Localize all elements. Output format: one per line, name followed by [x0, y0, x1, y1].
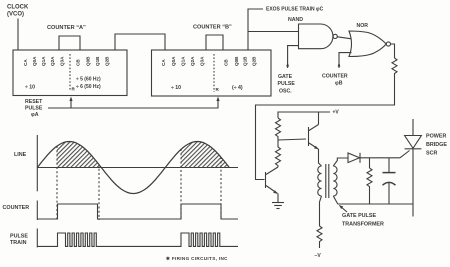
svg-text:SCR: SCR [426, 151, 437, 157]
svg-text:PULSE: PULSE [278, 81, 296, 87]
svg-text:CB: CB [224, 59, 229, 66]
svg-text:R: R [72, 87, 76, 92]
ground [272, 202, 284, 204]
svg-text:CB: CB [76, 59, 81, 66]
wire counter phi-B to NOR input [339, 53, 352, 68]
counter phi-B label [322, 74, 348, 87]
svg-text:÷ 6 (50 Hz): ÷ 6 (50 Hz) [76, 84, 101, 90]
resistor R3 [276, 140, 281, 167]
svg-text:LINE: LINE [14, 152, 27, 158]
hatch region 1 [57, 142, 101, 168]
line waveform vertical axis [36, 135, 38, 191]
SCR anode line [412, 119, 414, 136]
NOR gate U4 [349, 31, 386, 57]
counter B pin labels [161, 56, 257, 66]
svg-text:CA: CA [161, 59, 166, 66]
wire secondary top to diode [333, 158, 348, 166]
wire counter A output to counter B clock [115, 34, 165, 50]
power bridge SCR label [426, 134, 447, 157]
wire clock to counter A pin CA [17, 19, 19, 51]
svg-text:Q2A: Q2A [190, 56, 195, 66]
counter A internal divider [69, 54, 71, 91]
NAND gate U3 [299, 24, 333, 49]
svg-text:Q0B: Q0B [86, 56, 91, 66]
resistor R1 [392, 58, 397, 76]
svg-text:CLOCK: CLOCK [7, 5, 29, 11]
svg-text:Q0A: Q0A [32, 56, 37, 66]
resistor R4 [317, 226, 322, 248]
counter B divide labels [171, 85, 243, 92]
pulse train axis tick [36, 229, 38, 248]
wire gate pulse osc to NAND input [288, 46, 299, 68]
svg-text:✱ FIRING CIRCUITS, INC: ✱ FIRING CIRCUITS, INC [166, 256, 228, 261]
counter B bracket [206, 35, 223, 50]
svg-text:Q1A: Q1A [181, 56, 186, 66]
diode D1 [348, 153, 360, 163]
wire primary to resistor R4 [320, 196, 322, 226]
svg-text:CA: CA [23, 59, 28, 66]
svg-text:PULSE: PULSE [25, 106, 43, 112]
reset arrow into counter A pin R [70, 99, 72, 108]
+V label [333, 110, 340, 116]
SCR cathode line [412, 149, 414, 217]
svg-text:φA: φA [31, 112, 39, 118]
svg-text:φB: φB [335, 81, 343, 87]
wire feedback to driver base [256, 76, 395, 180]
svg-text:COUNTER “A”: COUNTER “A” [47, 25, 86, 31]
wire secondary bottom to rail [333, 196, 337, 204]
svg-text:TRAIN: TRAIN [10, 240, 27, 246]
counter A divide labels [25, 77, 101, 92]
counter waveform label [3, 205, 30, 211]
svg-text:÷ 5 (60 Hz): ÷ 5 (60 Hz) [76, 77, 101, 83]
svg-text:GATE: GATE [278, 74, 293, 80]
+V rail [278, 112, 330, 118]
dashed line at 221 [220, 157, 222, 220]
sine wave [37, 142, 229, 194]
reset pulse label [25, 99, 43, 118]
clock (VCO) label [7, 5, 29, 18]
reset pulse line phi-A [48, 99, 218, 108]
svg-text:BRIDGE: BRIDGE [426, 142, 447, 148]
line waveform label [14, 152, 27, 158]
svg-text:Q2B: Q2B [105, 56, 110, 66]
transistor Q1 [265, 172, 267, 188]
svg-text:(÷ 4): (÷ 4) [232, 85, 243, 91]
reset arrow into counter B pin R [216, 97, 219, 102]
svg-text:COUNTER: COUNTER [3, 205, 30, 211]
line waveform horizontal axis [37, 167, 238, 169]
gate pulse transformer T1 primary [318, 166, 322, 196]
wire NAND output to NOR input [337, 37, 351, 39]
svg-text:Q2A: Q2A [50, 56, 55, 66]
counter waveform [37, 204, 238, 219]
transformer label arrow [340, 206, 347, 212]
counter waveform axis tick [36, 201, 38, 221]
svg-text:(VCO): (VCO) [7, 12, 24, 18]
svg-text:Q1B: Q1B [95, 56, 100, 66]
svg-text:POWER: POWER [426, 134, 446, 140]
svg-text:NAND: NAND [288, 17, 303, 23]
counter A bracket [59, 36, 80, 50]
svg-text:EXOS PULSE TRAIN φC: EXOS PULSE TRAIN φC [266, 7, 324, 13]
svg-text:NOR: NOR [357, 23, 369, 29]
svg-text:Q1A: Q1A [41, 56, 46, 66]
pulse train waveform [37, 233, 238, 246]
capacitor C1 [388, 158, 390, 172]
svg-text:COUNTER: COUNTER [322, 74, 348, 80]
svg-text:Q3A: Q3A [60, 56, 65, 66]
bottom rail [338, 203, 414, 205]
svg-text:COUNTER “B”: COUNTER “B” [193, 25, 232, 31]
svg-text:Q1B: Q1B [243, 56, 248, 66]
svg-text:Q0A: Q0A [171, 56, 176, 66]
node phi-C wire from counter B to NAND [248, 9, 263, 50]
resistor R2 [276, 118, 281, 140]
counter A pin labels [23, 56, 110, 66]
svg-text:TRANSFORMER: TRANSFORMER [342, 222, 384, 228]
transformer core [325, 164, 327, 198]
counter B label [193, 25, 232, 31]
exos pulse train label [266, 7, 324, 13]
svg-text:PULSE: PULSE [10, 234, 28, 240]
svg-text:÷ 10: ÷ 10 [25, 85, 35, 91]
SCR gate lead [400, 151, 410, 158]
pulse train label [10, 234, 28, 247]
wire diode to SCR gate [360, 157, 400, 159]
hatch region 2 [181, 142, 229, 168]
transistor Q2 [308, 127, 310, 146]
firing circuits caption [166, 256, 228, 261]
svg-text:−V: −V [315, 253, 322, 259]
wire NOR output down [391, 44, 395, 58]
counter A label [47, 25, 86, 31]
svg-text:Q2B: Q2B [252, 56, 257, 66]
counter B internal divider [213, 54, 215, 92]
svg-text:Q3A: Q3A [200, 56, 205, 66]
svg-text:GATE PULSE: GATE PULSE [342, 213, 376, 219]
gate pulse transformer label [342, 213, 384, 228]
svg-text:R: R [216, 87, 220, 92]
svg-text:OSC.: OSC. [279, 89, 292, 95]
-V label [315, 253, 322, 259]
counter B box U2 [152, 50, 272, 96]
dashed line at 57 [56, 146, 58, 220]
dashed line at 181 [180, 149, 182, 220]
gate pulse osc label [278, 74, 296, 95]
svg-text:Q0B: Q0B [234, 56, 239, 66]
svg-text:+V: +V [333, 110, 340, 116]
svg-text:RESET: RESET [25, 99, 43, 105]
SCR power bridge [405, 136, 422, 149]
node base of Q2 [278, 139, 306, 140]
dashed line at 99 [98, 165, 100, 221]
resistor R5 [369, 158, 371, 168]
gate pulse transformer T1 secondary [333, 166, 337, 196]
counter A box U1 [13, 50, 127, 96]
svg-text:÷ 10: ÷ 10 [171, 85, 181, 91]
